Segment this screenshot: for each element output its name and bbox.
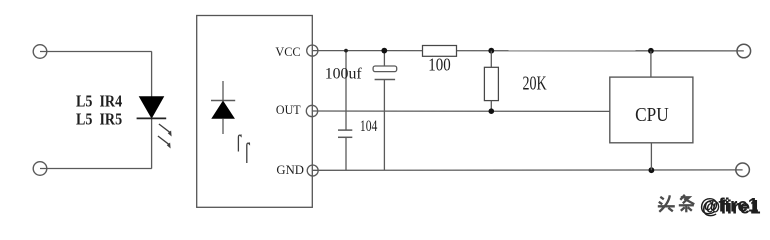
junction dot VCC/CPU: [648, 48, 654, 54]
resistor 100 body: [423, 46, 457, 57]
photodiode stub bottom: [222, 118, 224, 134]
LED emission arrow 1: [159, 124, 172, 137]
LED emission arrow 2: [158, 136, 171, 149]
pin circle VCC: [307, 45, 318, 56]
junction dot VCC/20K: [488, 48, 494, 54]
LED D1 triangle: [139, 97, 163, 118]
photo arrow 2: [247, 142, 250, 163]
photodiode stub top: [222, 81, 224, 101]
VCC rail wire: [312, 50, 744, 52]
terminal J1 top-left: [33, 45, 47, 59]
terminal J2 bottom-left: [33, 162, 47, 176]
svg-text:100uf: 100uf: [325, 66, 363, 83]
wire CPU to VCC: [650, 51, 652, 77]
svg-text:VCC: VCC: [275, 45, 300, 59]
photo arrow 1: [238, 134, 241, 151]
pin circle OUT: [306, 105, 317, 116]
terminal J4 bottom-right: [736, 163, 750, 177]
GND rail wire: [313, 169, 743, 171]
junction dot VCC/104: [344, 49, 348, 53]
wire capacitor 104 branch upper: [345, 51, 347, 130]
svg-text:L5 IR4: L5 IR4: [76, 92, 123, 111]
CPU box U2: [610, 77, 693, 143]
capacitor 100uf negative plate: [375, 79, 396, 81]
svg-text:@fire1: @fire1: [700, 195, 759, 216]
junction dot GND/CPU: [649, 167, 655, 173]
OUT rail wire: [312, 110, 610, 112]
wire CPU to GND: [650, 143, 652, 170]
pin circle GND: [307, 165, 318, 176]
wire capacitor 100uf branch upper: [383, 51, 385, 66]
svg-text:104: 104: [360, 118, 378, 135]
junction dot VCC/100uf: [381, 48, 387, 54]
capacitor 100uf positive plate box: [373, 66, 397, 72]
wire 20K upper: [490, 51, 492, 68]
wire capacitor 104 branch lower: [345, 137, 347, 170]
optocoupler U1 box: [197, 16, 313, 208]
capacitor 104 plate top: [338, 129, 352, 131]
LED D1 cathode bar: [137, 117, 167, 119]
watermark 头条 @fire1: [658, 195, 761, 219]
capacitor 104 plate bottom: [338, 136, 352, 138]
svg-text:CPU: CPU: [635, 105, 669, 126]
resistor 20K body: [484, 67, 498, 100]
wire capacitor 100uf branch lower: [383, 80, 385, 171]
photodiode cathode bar: [211, 100, 235, 102]
junction dot OUT/20K: [489, 108, 495, 114]
svg-text:20K: 20K: [523, 74, 547, 95]
wire J2 to LED cathode: [40, 168, 152, 170]
svg-text:OUT: OUT: [276, 103, 301, 117]
wire 20K lower: [490, 101, 492, 112]
svg-text:100: 100: [428, 54, 451, 74]
svg-text:L5 IR5: L5 IR5: [76, 110, 122, 129]
wire J1 to LED anode: [40, 51, 152, 53]
wire LED vertical: [151, 52, 153, 169]
terminal J3 top-right: [737, 44, 751, 58]
photodiode triangle: [212, 101, 234, 118]
svg-text:GND: GND: [276, 162, 304, 177]
